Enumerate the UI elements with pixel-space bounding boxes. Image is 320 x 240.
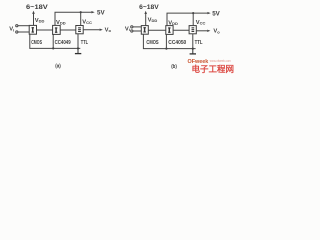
node ground junction U3b — [192, 48, 194, 50]
wire input 1 (a) — [18, 25, 29, 27]
output wire (b) — [196, 30, 207, 32]
wire VCC down (a) — [80, 12, 82, 25]
gate U3b inner symbol — [192, 27, 195, 32]
node ground junction U3a — [77, 47, 79, 49]
svg-text:Vo: Vo — [213, 29, 220, 35]
svg-text:(b): (b) — [171, 64, 177, 70]
wire U2b to U3b — [173, 29, 189, 31]
ground rail (b) — [143, 34, 195, 48]
gate U3a inner symbol — [78, 27, 81, 32]
node ground junction U2a — [52, 47, 54, 49]
supply arrow 6~18V (a) — [32, 11, 35, 26]
output arrow (a) — [100, 29, 103, 31]
gate U1b CMOS box — [141, 26, 148, 35]
svg-text:5V: 5V — [97, 9, 105, 16]
output wire (a) — [83, 29, 99, 31]
gate U2a inner symbol — [55, 27, 58, 32]
svg-text:6~18V: 6~18V — [26, 4, 49, 11]
node ground junction U2b — [165, 48, 167, 50]
wire U1b to U2b — [148, 29, 166, 31]
gate U1a inner symbol — [32, 27, 35, 32]
svg-text:VDD: VDD — [168, 20, 178, 26]
svg-text:Vi: Vi — [9, 27, 14, 33]
input terminal 2 (b) — [131, 30, 133, 32]
gate U2b CC4050 box — [166, 26, 173, 35]
svg-text:TTL: TTL — [81, 40, 89, 46]
svg-text:VDD: VDD — [148, 17, 158, 23]
gate U3b TTL box — [189, 26, 196, 34]
wire input 1 (b) — [133, 26, 141, 28]
svg-text:(a): (a) — [55, 63, 61, 69]
ground symbol (a) — [75, 48, 81, 53]
wire U1a to U2a — [37, 29, 53, 31]
svg-text:VDD: VDD — [56, 20, 66, 26]
5V rail (a) — [55, 12, 91, 25]
5V rail arrow (b) — [207, 12, 210, 14]
svg-text:5V: 5V — [212, 10, 220, 17]
wire U3b ground — [192, 34, 194, 49]
svg-text:www.ofweek.com: www.ofweek.com — [210, 59, 231, 63]
svg-text:6~18V: 6~18V — [139, 4, 159, 11]
wire U2b ground — [165, 34, 167, 48]
svg-text:TTL: TTL — [195, 40, 203, 46]
input terminal 1 (a) — [16, 25, 18, 27]
wire input 2 (a) — [18, 31, 29, 33]
input terminal 2 (a) — [16, 31, 18, 33]
input terminal 1 (b) — [131, 26, 133, 28]
wire VCC down (b) — [192, 13, 194, 26]
gate U3a TTL box — [76, 26, 83, 34]
gate U1a CMOS box — [29, 25, 36, 34]
wire U2a ground — [52, 34, 54, 48]
gate U2a CC4049 box — [53, 25, 61, 34]
gate U2b inner symbol — [168, 27, 171, 32]
svg-text:VCC: VCC — [196, 20, 206, 26]
svg-text:VCC: VCC — [82, 19, 92, 25]
output arrow (b) — [207, 30, 210, 32]
ground symbol (b) — [190, 49, 196, 54]
node VCC junction (a) — [80, 11, 82, 13]
svg-text:CC4050: CC4050 — [168, 40, 186, 46]
svg-text:电子工程网: 电子工程网 — [192, 64, 235, 74]
5V rail (b) — [167, 13, 207, 26]
wire input 2 (b) — [133, 30, 141, 32]
svg-text:Vo: Vo — [105, 27, 112, 33]
svg-text:VDD: VDD — [35, 18, 45, 24]
svg-text:CC4049: CC4049 — [55, 40, 71, 46]
gate U1b inner symbol — [143, 27, 146, 32]
ground rail (a) — [30, 34, 81, 48]
svg-text:CMOS: CMOS — [146, 40, 158, 46]
supply arrow 6~18V (b) — [144, 11, 147, 26]
svg-text:CMOS: CMOS — [31, 40, 42, 46]
node VCC junction (b) — [192, 12, 194, 14]
wire U3a ground — [77, 34, 79, 49]
svg-text:Vi: Vi — [125, 26, 130, 32]
wire U2a to U3a — [60, 29, 76, 31]
5V rail arrow (a) — [91, 11, 94, 13]
